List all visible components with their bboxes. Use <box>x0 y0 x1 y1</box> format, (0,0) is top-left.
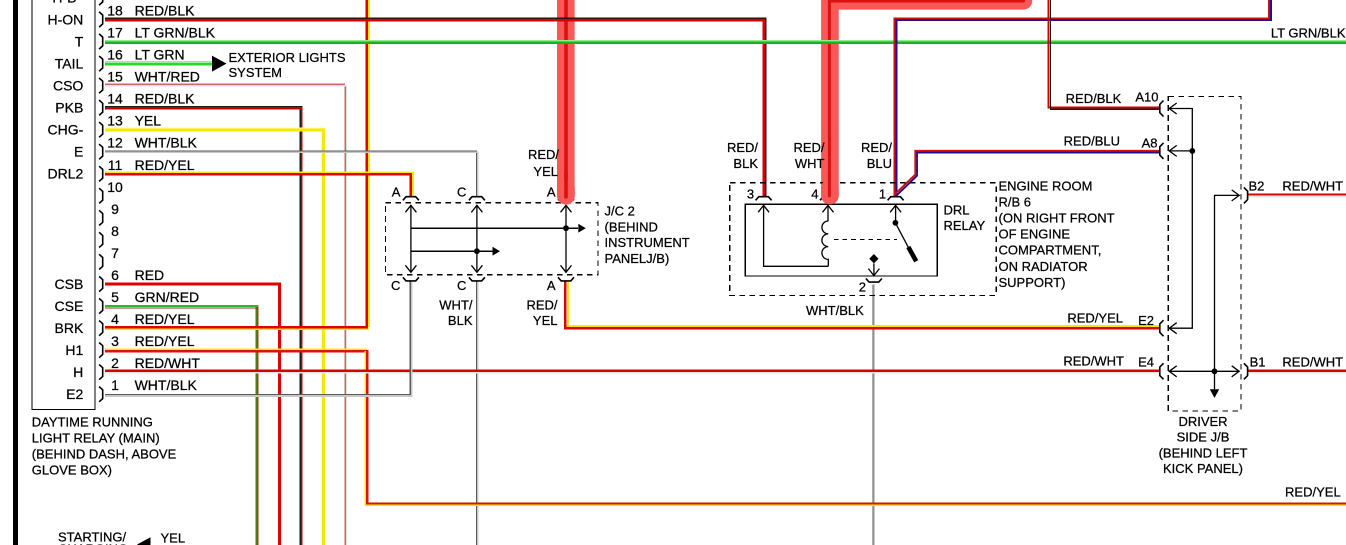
label for DRL relay main location <box>32 415 177 478</box>
svg-text:17: 17 <box>107 25 123 41</box>
svg-text:RED/BLK: RED/BLK <box>135 91 196 107</box>
wire RED/YEL pin 11 to J/C 2 pin A top <box>105 172 413 196</box>
svg-text:RED/WHT: RED/WHT <box>1282 179 1343 194</box>
J/C 2 pin A (top, x=566.0) <box>558 197 574 201</box>
svg-text:SIDE J/B: SIDE J/B <box>1177 430 1230 445</box>
svg-text:4: 4 <box>111 311 119 327</box>
svg-text:RED/: RED/ <box>528 147 559 162</box>
svg-text:GRN/RED: GRN/RED <box>135 289 200 305</box>
svg-text:H: H <box>73 364 83 380</box>
svg-text:15: 15 <box>107 69 123 85</box>
svg-text:CSO: CSO <box>53 78 83 94</box>
solid down arrow inside driver side J/B <box>1210 389 1219 398</box>
svg-text:3: 3 <box>747 187 754 202</box>
svg-text:RED/BLK: RED/BLK <box>135 3 196 19</box>
svg-text:H-B: H-B <box>52 0 76 5</box>
svg-text:DRL2: DRL2 <box>48 166 84 182</box>
DRL relay inner box <box>745 204 937 276</box>
wire RED/BLU from DRL relay pin 1 up and right to top edge <box>895 0 1269 196</box>
wire WHT/BLK pin 12 to J/C 2 pin C top <box>105 151 476 197</box>
svg-text:RED/YEL: RED/YEL <box>135 311 195 327</box>
wire WHT/BLK pin 1 to J/C 2 pin C bottom (col 1) <box>105 282 410 395</box>
wire RED pin 6 turning down at x=279 <box>105 283 281 286</box>
arrow to exterior lights system <box>212 56 227 72</box>
J/C 2 pin C (bottom, x=476.9) <box>469 277 485 281</box>
svg-text:RED/WHT: RED/WHT <box>135 355 201 371</box>
terminal pin 12 (E) of DRL relay main connector <box>74 135 198 160</box>
svg-text:(ON RIGHT FRONT: (ON RIGHT FRONT <box>999 211 1115 226</box>
terminal pin 3 (H1) of DRL relay main connector <box>65 333 194 358</box>
svg-text:CSE: CSE <box>55 298 84 314</box>
svg-text:T: T <box>75 33 84 49</box>
svg-text:RED/YEL: RED/YEL <box>1285 485 1341 500</box>
adjacent J/B edge bar at left <box>13 0 18 545</box>
svg-text:H1: H1 <box>65 342 83 358</box>
junction dot on J/C 2 bus A <box>563 225 569 231</box>
svg-text:RED/BLK: RED/BLK <box>1066 91 1122 106</box>
wire WHT/BLK vertical below J/C 2 pin C (col 2) to bottom edge <box>475 282 477 545</box>
arrow and label to starting/charging system (cut at bottom) <box>58 530 185 545</box>
svg-text:4: 4 <box>811 187 818 202</box>
driver side J/B pin A8 <box>1160 143 1164 159</box>
terminal pin 2 (H) of DRL relay main connector <box>73 355 200 380</box>
svg-text:RED/WHT: RED/WHT <box>1063 353 1124 368</box>
junction connector J/C 2 dashed box <box>386 203 599 275</box>
terminal pin 5 (CSE) of DRL relay main connector <box>55 289 200 314</box>
svg-text:18: 18 <box>107 3 123 19</box>
svg-text:A: A <box>547 185 556 200</box>
svg-text:WHT/: WHT/ <box>439 297 473 312</box>
svg-text:A: A <box>547 278 556 293</box>
label RED/BLK at DRL pin 3 <box>727 140 758 171</box>
terminal pin 9 of DRL relay main connector <box>99 201 119 226</box>
svg-text:RED/BLU: RED/BLU <box>1064 133 1120 148</box>
svg-text:C: C <box>457 185 466 200</box>
svg-text:9: 9 <box>111 201 119 217</box>
svg-text:12: 12 <box>107 135 123 151</box>
label RED/YEL below J/C 2 <box>526 297 557 328</box>
terminal pin 19 (partially cut at top) <box>52 0 102 5</box>
DRL relay mechanical link (dashed) <box>834 239 897 241</box>
wire RED/WHT from driver side J/B pin B2 to right edge <box>1248 193 1346 195</box>
svg-text:LT GRN/BLK: LT GRN/BLK <box>135 25 216 41</box>
svg-text:6: 6 <box>111 267 119 283</box>
DRL relay pin 4 internal lead <box>827 206 829 221</box>
J/C 2 internal link line 1 with arrow <box>411 227 578 229</box>
svg-text:BLU: BLU <box>867 156 892 171</box>
svg-text:A10: A10 <box>1135 90 1158 105</box>
svg-text:A: A <box>392 185 401 200</box>
terminal pin 13 (CHG-) of DRL relay main connector <box>48 113 162 138</box>
svg-text:WHT/BLK: WHT/BLK <box>135 377 198 393</box>
label WHT/BLK below J/C 2 <box>439 297 473 328</box>
svg-text:DRL: DRL <box>944 203 970 218</box>
label RED/BLU at DRL pin 1 <box>861 140 892 171</box>
svg-text:BLK: BLK <box>448 313 473 328</box>
wire YEL vertical from pin 13 to bottom edge <box>321 129 323 545</box>
wire RED/BLK pin 18 to DRL relay pin 3 <box>105 18 766 196</box>
svg-text:YEL: YEL <box>533 313 558 328</box>
svg-text:SYSTEM: SYSTEM <box>229 65 282 80</box>
svg-text:1: 1 <box>111 377 119 393</box>
thick RED/WHT wire cap over DRL relay pin 4 dome <box>821 188 839 196</box>
svg-text:COMPARTMENT,: COMPARTMENT, <box>999 243 1102 258</box>
svg-text:WHT/BLK: WHT/BLK <box>135 135 198 151</box>
svg-text:LT GRN/BLK: LT GRN/BLK <box>1271 26 1346 41</box>
junction dot on J/C 2 bus C <box>474 248 480 254</box>
J/C 2 pin C (bottom, x=410.9) <box>403 277 419 281</box>
svg-text:2: 2 <box>111 355 119 371</box>
svg-text:RED/YEL: RED/YEL <box>135 157 195 173</box>
wire RED/YEL vertical from top edge to pin 4 corner <box>366 0 368 329</box>
svg-text:PKB: PKB <box>55 100 83 116</box>
svg-text:PANELJ/B): PANELJ/B) <box>605 251 670 266</box>
svg-text:RED/: RED/ <box>861 140 892 155</box>
svg-text:E4: E4 <box>1138 355 1154 370</box>
svg-text:EXTERIOR LIGHTS: EXTERIOR LIGHTS <box>229 50 346 65</box>
DRL relay pin 2 (bottom) <box>866 279 882 283</box>
wire RED/YEL (thick highlighted) from top edge into J/C 2 pin A <box>557 0 575 196</box>
svg-text:(BEHIND LEFT: (BEHIND LEFT <box>1159 445 1248 460</box>
label engine room R/B 6 location <box>999 179 1115 290</box>
svg-text:RED/: RED/ <box>526 297 557 312</box>
svg-text:A8: A8 <box>1142 136 1158 151</box>
svg-text:10: 10 <box>107 179 123 195</box>
terminal pin 17 (T) of DRL relay main connector <box>75 25 216 50</box>
svg-text:RED/: RED/ <box>727 140 758 155</box>
J/C 2 pin C (top, x=476.9) <box>469 197 485 201</box>
svg-text:8: 8 <box>111 223 119 239</box>
J/C 2 pin A (top, x=410.9) <box>403 197 419 201</box>
J/C 2 internal bus (x=476.9) <box>476 206 478 272</box>
driver side J/B pin E4 <box>1160 363 1164 379</box>
wire RED/WHT pin 2 to driver side J/B pin E4 <box>105 370 1160 372</box>
driver side J/B internal bus A10-A8-E2 <box>1170 109 1193 329</box>
DRL relay pin 1 internal lead and switch <box>895 206 897 221</box>
driver side J/B dashed box <box>1168 96 1241 411</box>
wire WHT/BLK vertical below DRL relay pin 2 to bottom edge <box>872 285 874 545</box>
svg-text:INSTRUMENT: INSTRUMENT <box>605 235 690 250</box>
svg-text:E: E <box>74 144 83 160</box>
svg-text:CHG-: CHG- <box>48 122 84 138</box>
svg-text:2: 2 <box>859 280 866 295</box>
J/C 2 internal link line 2 with arrow <box>411 250 492 252</box>
terminal pin 7 of DRL relay main connector <box>99 245 119 270</box>
svg-text:WHT: WHT <box>795 156 825 171</box>
DRL relay coil <box>822 221 828 266</box>
svg-text:13: 13 <box>107 113 123 129</box>
svg-text:ENGINE ROOM: ENGINE ROOM <box>999 179 1093 194</box>
svg-text:CHARGING: CHARGING <box>58 542 128 545</box>
svg-text:16: 16 <box>107 47 123 63</box>
terminal pin 6 (CSB) of DRL relay main connector <box>55 267 165 292</box>
terminal pin 11 (DRL2) of DRL relay main connector <box>48 157 195 182</box>
DRL relay pin 1 <box>888 197 904 201</box>
DRL relay pin 3 <box>756 197 772 201</box>
DRL relay pin 2 lead with down arrow <box>873 263 875 275</box>
thick RED/YEL wire cap over J/C 2 pin A dome <box>557 188 575 196</box>
terminal pin 18 (H-ON) of DRL relay main connector <box>48 3 196 28</box>
svg-text:DRIVER: DRIVER <box>1178 414 1227 429</box>
label exterior lights system <box>229 50 346 80</box>
svg-text:DAYTIME RUNNING: DAYTIME RUNNING <box>32 415 153 430</box>
terminal pin 1 (E2) of DRL relay main connector <box>66 377 197 402</box>
J/C 2 internal bus (x=566.0) <box>565 206 567 272</box>
terminal pin 14 (PKB) of DRL relay main connector <box>55 91 195 116</box>
wire RED/YEL pin 4 turning up at x=366 <box>105 326 367 328</box>
DRL relay pin 4 <box>820 197 836 201</box>
junction dot at E4 bus <box>1212 368 1218 374</box>
svg-text:KICK PANEL): KICK PANEL) <box>1163 461 1243 476</box>
svg-text:LIGHT RELAY (MAIN): LIGHT RELAY (MAIN) <box>32 431 160 446</box>
terminal pin 15 (CSO) of DRL relay main connector <box>53 69 200 94</box>
svg-text:RED: RED <box>135 267 165 283</box>
terminal pin 8 of DRL relay main connector <box>99 223 119 248</box>
wire GRN/RED vertical from pin 5 to bottom edge <box>255 306 257 545</box>
wire WHT/RED pin 15 turning down at x=346 <box>105 83 345 85</box>
engine room R/B 6 dashed box around DRL relay <box>730 183 996 296</box>
label J/C 2 location <box>605 204 690 266</box>
label driver side J/B location <box>1159 414 1248 476</box>
terminal pin 4 (BRK) of DRL relay main connector <box>55 311 195 336</box>
wire RED/YEL from J/C 2 pin A bottom to driver side J/B pin E2 <box>567 282 569 327</box>
wire RED/BLK from top edge to driver side J/B pin A10 <box>1049 0 1160 108</box>
svg-text:RED/WHT: RED/WHT <box>1282 355 1343 370</box>
wire RED/YEL pin 3 down at x=368 then right to right edge <box>105 348 367 350</box>
svg-text:5: 5 <box>111 289 119 305</box>
svg-text:RED/: RED/ <box>793 140 824 155</box>
driver side J/B pin B1 <box>1244 363 1248 379</box>
wire WHT/RED vertical from pin 15 to bottom edge <box>344 85 346 545</box>
driver side J/B internal line E4-B1 <box>1170 370 1239 372</box>
svg-text:BLK: BLK <box>733 156 758 171</box>
svg-text:SUPPORT): SUPPORT) <box>999 275 1066 290</box>
wire GRN/RED pin 5 turning down at x=257 <box>105 305 258 307</box>
svg-text:3: 3 <box>111 333 119 349</box>
svg-text:B1: B1 <box>1250 355 1266 370</box>
wire RED vertical from pin 6 to bottom edge <box>278 283 281 545</box>
DRL relay pin 2 fixed contact (diamond) <box>869 254 878 263</box>
svg-text:R/B 6: R/B 6 <box>999 195 1032 210</box>
svg-text:YEL: YEL <box>533 164 558 179</box>
svg-text:H-ON: H-ON <box>48 11 84 27</box>
driver side J/B pin A10 <box>1160 101 1164 117</box>
wire RED/BLK pin 14 turning down at x=300 <box>105 106 303 108</box>
wire RED/WHT (thick highlighted) from top edge into DRL relay pin 4 <box>830 0 1024 196</box>
svg-text:TAIL: TAIL <box>55 56 84 72</box>
J/C 2 internal bus (x=410.9) <box>410 206 412 272</box>
svg-text:RED/YEL: RED/YEL <box>1067 310 1123 325</box>
DRL relay switch contact arm tip <box>908 247 916 261</box>
svg-text:GLOVE BOX): GLOVE BOX) <box>32 463 112 478</box>
svg-text:E2: E2 <box>1138 313 1154 328</box>
svg-text:WHT/BLK: WHT/BLK <box>806 303 864 318</box>
wire RED/WHT from driver side J/B pin B1 to right edge <box>1248 370 1346 372</box>
wire RED/BLK vertical from pin 14 to bottom edge <box>299 107 301 545</box>
svg-text:WHT/RED: WHT/RED <box>135 69 200 85</box>
DRL relay pin 3 internal lead to coil <box>764 206 829 266</box>
svg-text:C: C <box>457 278 466 293</box>
svg-text:(BEHIND: (BEHIND <box>605 219 658 234</box>
svg-text:YEL: YEL <box>161 531 186 545</box>
svg-text:E2: E2 <box>66 386 83 402</box>
svg-text:YEL: YEL <box>135 113 162 129</box>
svg-text:14: 14 <box>107 91 123 107</box>
terminal pin 10 of DRL relay main connector <box>99 179 123 204</box>
label DRL RELAY <box>944 203 986 233</box>
label RED/WHT at DRL pin 4 <box>793 140 824 171</box>
svg-text:C: C <box>391 278 400 293</box>
wire RED/BLU from DRL relay pin 1 diagonally up to driver side J/B pin A8 <box>896 153 1160 197</box>
svg-text:CSB: CSB <box>55 276 84 292</box>
svg-text:BRK: BRK <box>55 320 84 336</box>
svg-text:1: 1 <box>879 187 886 202</box>
svg-text:7: 7 <box>111 245 119 261</box>
J/C 2 pin A (bottom, x=566.0) <box>558 277 574 281</box>
daytime running light relay (MAIN) box <box>32 0 95 410</box>
svg-text:OF ENGINE: OF ENGINE <box>999 227 1071 242</box>
svg-text:J/C 2: J/C 2 <box>605 204 635 219</box>
wire LT GRN pin 16 to exterior lights system arrow <box>105 61 212 63</box>
svg-text:RED/YEL: RED/YEL <box>135 333 195 349</box>
label RED/YEL on thick wire at J/C 2 <box>528 147 559 179</box>
driver side J/B pin E2 <box>1160 320 1164 336</box>
svg-text:ON RADIATOR: ON RADIATOR <box>999 259 1088 274</box>
wire LT GRN/BLK pin 17 to right edge <box>105 40 1346 42</box>
svg-text:(BEHIND DASH, ABOVE: (BEHIND DASH, ABOVE <box>32 447 177 462</box>
svg-text:11: 11 <box>108 157 123 173</box>
driver side J/B internal bus B2-E4 <box>1215 195 1239 389</box>
svg-text:LT GRN: LT GRN <box>135 47 185 63</box>
svg-text:RELAY: RELAY <box>944 218 986 233</box>
junction dot at A8 bus <box>1189 148 1195 154</box>
driver side J/B pin B2 <box>1244 187 1248 203</box>
svg-text:B2: B2 <box>1249 179 1265 194</box>
wire YEL pin 13 turning down at x=323 <box>105 127 325 129</box>
terminal pin 16 (TAIL) of DRL relay main connector <box>55 47 185 72</box>
